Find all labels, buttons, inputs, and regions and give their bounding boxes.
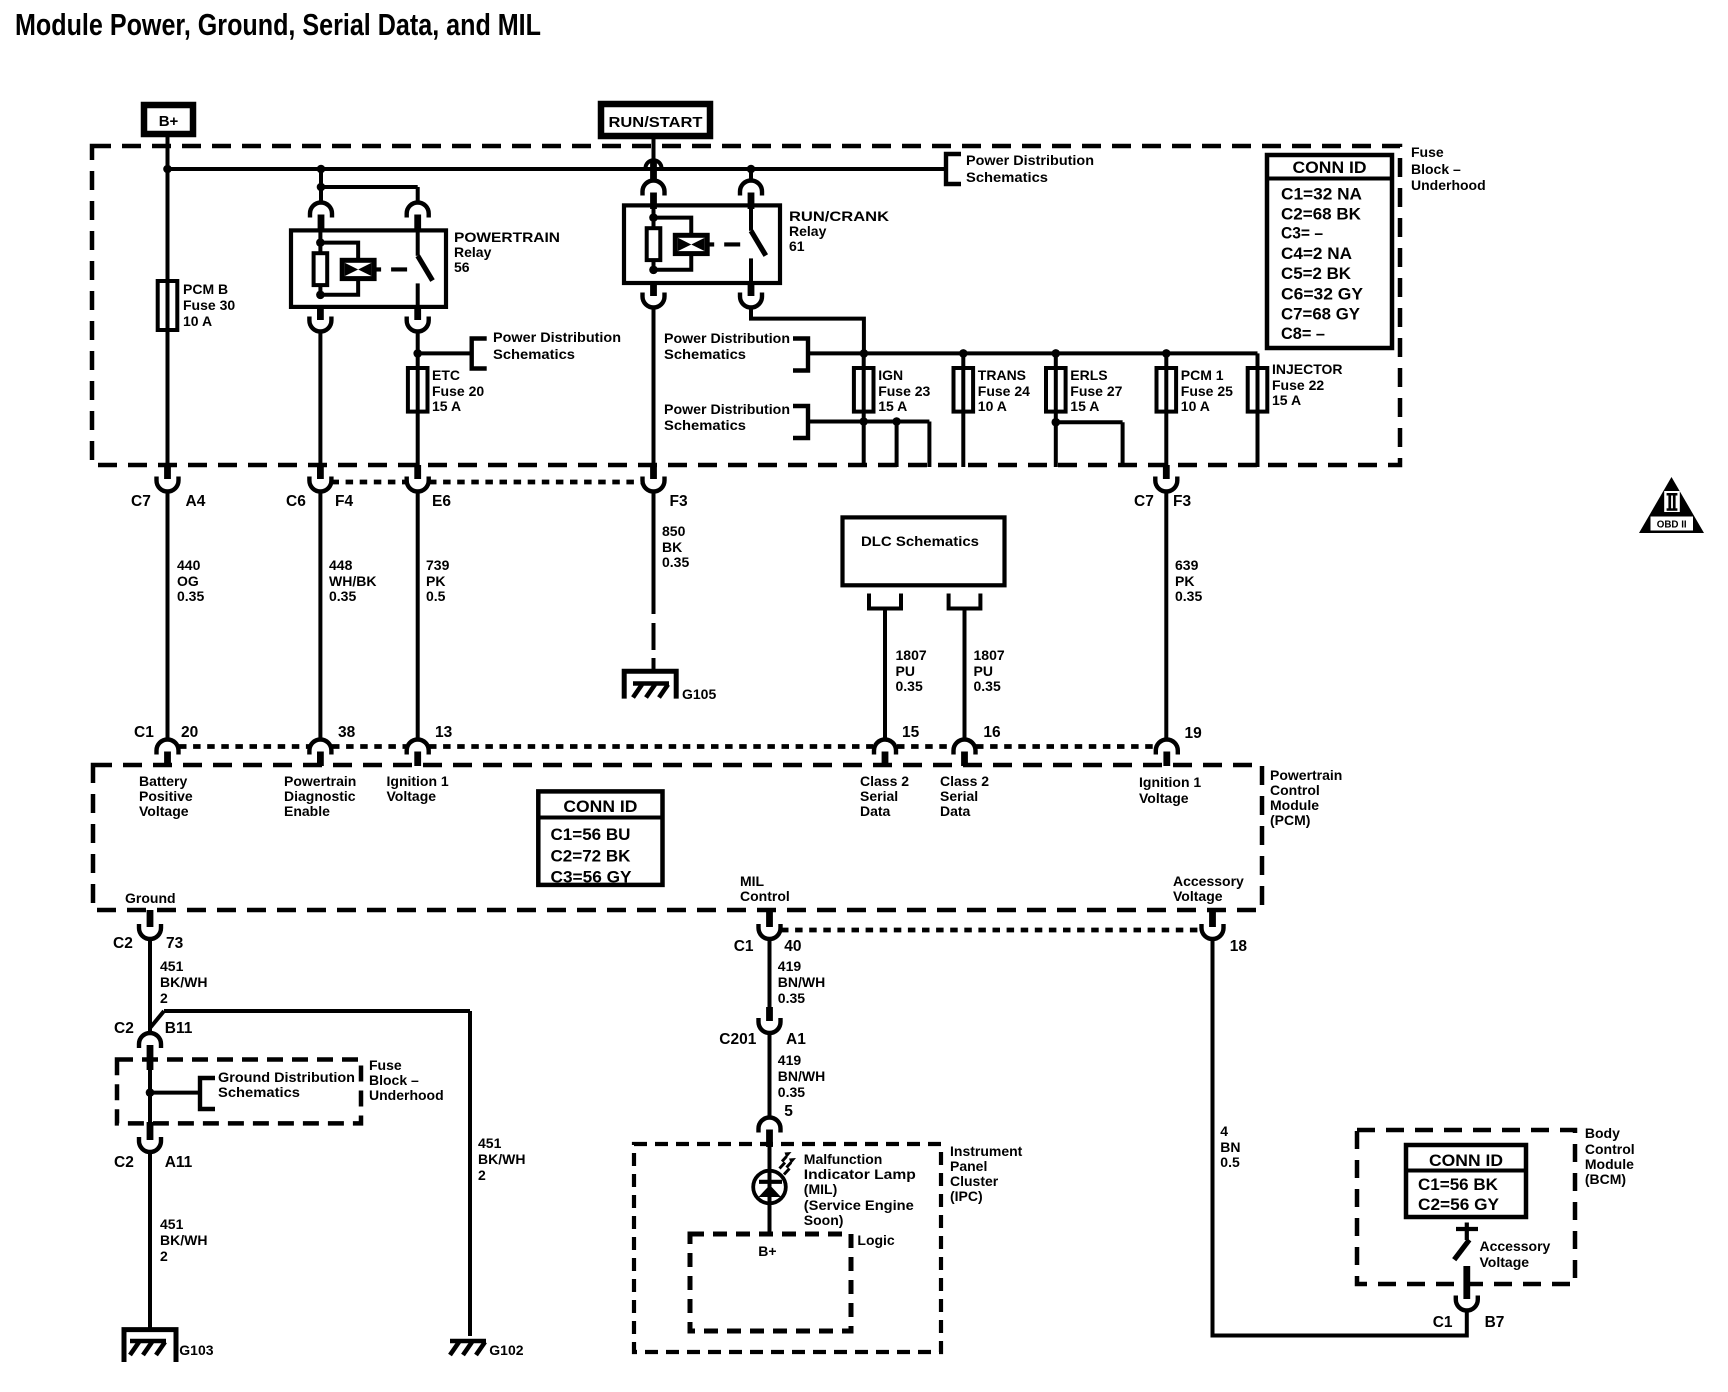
svg-text:PCM B: PCM B xyxy=(183,281,228,297)
svg-text:A1: A1 xyxy=(786,1031,806,1048)
svg-text:440: 440 xyxy=(177,557,201,573)
svg-text:Control: Control xyxy=(1585,1141,1635,1157)
svg-text:Diagnostic: Diagnostic xyxy=(284,788,356,804)
svg-text:Fuse: Fuse xyxy=(369,1057,402,1073)
svg-text:CONN ID: CONN ID xyxy=(563,797,637,816)
svg-text:OG: OG xyxy=(177,573,199,589)
svg-text:Fuse: Fuse xyxy=(1411,144,1444,160)
svg-text:C2=68 BK: C2=68 BK xyxy=(1281,204,1362,223)
svg-text:BN/WH: BN/WH xyxy=(778,1068,825,1084)
svg-text:Ignition 1: Ignition 1 xyxy=(1139,774,1201,790)
svg-text:C1: C1 xyxy=(134,724,154,741)
svg-text:Instrument: Instrument xyxy=(950,1143,1023,1159)
svg-text:Voltage: Voltage xyxy=(387,788,437,804)
svg-text:18: 18 xyxy=(1230,938,1248,955)
svg-text:Data: Data xyxy=(940,803,971,819)
svg-text:CONN ID: CONN ID xyxy=(1293,158,1367,177)
svg-text:Cluster: Cluster xyxy=(950,1173,999,1189)
svg-text:PK: PK xyxy=(426,573,445,589)
svg-text:E6: E6 xyxy=(432,493,451,510)
svg-text:RUN/START: RUN/START xyxy=(609,114,703,131)
svg-text:C3= –: C3= – xyxy=(1281,223,1323,242)
svg-text:40: 40 xyxy=(784,938,801,955)
svg-text:C2: C2 xyxy=(113,935,133,952)
svg-text:0.5: 0.5 xyxy=(1220,1154,1240,1170)
svg-text:0.35: 0.35 xyxy=(778,990,805,1006)
svg-text:0.35: 0.35 xyxy=(778,1084,805,1100)
svg-text:Module: Module xyxy=(1585,1156,1634,1172)
svg-text:C1: C1 xyxy=(734,938,754,955)
svg-text:PK: PK xyxy=(1175,573,1194,589)
svg-text:RUN/CRANK: RUN/CRANK xyxy=(789,208,889,224)
svg-text:0.35: 0.35 xyxy=(329,588,356,604)
svg-text:73: 73 xyxy=(166,935,184,952)
svg-text:Malfunction: Malfunction xyxy=(804,1151,883,1167)
svg-text:0.35: 0.35 xyxy=(662,554,689,570)
svg-text:Control: Control xyxy=(1270,782,1320,798)
svg-text:MIL: MIL xyxy=(740,873,765,889)
svg-text:F3: F3 xyxy=(670,493,688,510)
svg-text:Underhood: Underhood xyxy=(1411,177,1486,193)
svg-text:BK/WH: BK/WH xyxy=(160,974,207,990)
svg-text:0.5: 0.5 xyxy=(426,588,446,604)
svg-text:850: 850 xyxy=(662,523,686,539)
svg-text:Relay: Relay xyxy=(789,223,827,239)
svg-text:G103: G103 xyxy=(179,1342,213,1358)
svg-text:A4: A4 xyxy=(186,493,206,510)
svg-text:A11: A11 xyxy=(165,1154,193,1171)
svg-text:PU: PU xyxy=(896,663,915,679)
svg-text:15 A: 15 A xyxy=(878,398,907,414)
svg-text:Voltage: Voltage xyxy=(1173,888,1223,904)
svg-text:B+: B+ xyxy=(758,1243,776,1259)
svg-text:(MIL): (MIL) xyxy=(804,1181,837,1197)
svg-text:C7=68 GY: C7=68 GY xyxy=(1281,304,1361,323)
svg-text:G102: G102 xyxy=(489,1342,523,1358)
svg-text:DLC Schematics: DLC Schematics xyxy=(861,533,979,549)
svg-text:2: 2 xyxy=(478,1167,486,1183)
svg-text:Voltage: Voltage xyxy=(1139,790,1189,806)
svg-text:Power Distribution: Power Distribution xyxy=(664,330,790,346)
svg-text:Fuse 25: Fuse 25 xyxy=(1181,383,1233,399)
svg-text:10 A: 10 A xyxy=(1181,398,1210,414)
svg-text:Fuse 24: Fuse 24 xyxy=(978,383,1030,399)
svg-text:B7: B7 xyxy=(1485,1314,1505,1331)
svg-text:(BCM): (BCM) xyxy=(1585,1171,1626,1187)
svg-text:C7: C7 xyxy=(1134,493,1154,510)
svg-text:C1=56 BK: C1=56 BK xyxy=(1418,1175,1499,1194)
svg-text:POWERTRAIN: POWERTRAIN xyxy=(454,229,560,245)
svg-text:IGN: IGN xyxy=(878,367,903,383)
svg-text:Logic: Logic xyxy=(857,1232,895,1248)
svg-text:Fuse 30: Fuse 30 xyxy=(183,297,235,313)
svg-text:4: 4 xyxy=(1220,1123,1228,1139)
svg-text:Panel: Panel xyxy=(950,1158,987,1174)
svg-text:Power Distribution: Power Distribution xyxy=(493,329,621,345)
svg-text:Schematics: Schematics xyxy=(218,1084,300,1100)
svg-text:C2=56 GY: C2=56 GY xyxy=(1418,1195,1500,1214)
svg-text:Power Distribution: Power Distribution xyxy=(664,401,790,417)
svg-text:739: 739 xyxy=(426,557,450,573)
svg-text:F3: F3 xyxy=(1173,493,1191,510)
svg-text:Block –: Block – xyxy=(1411,161,1461,177)
svg-text:Relay: Relay xyxy=(454,244,492,260)
svg-text:61: 61 xyxy=(789,238,805,254)
svg-text:Schematics: Schematics xyxy=(493,346,575,362)
svg-text:10 A: 10 A xyxy=(183,313,212,329)
svg-text:Fuse 20: Fuse 20 xyxy=(432,383,484,399)
svg-text:15: 15 xyxy=(902,724,920,741)
svg-text:Underhood: Underhood xyxy=(369,1087,444,1103)
svg-text:Module: Module xyxy=(1270,797,1319,813)
svg-text:C1=56 BU: C1=56 BU xyxy=(551,825,631,844)
svg-text:19: 19 xyxy=(1185,725,1203,742)
svg-text:2: 2 xyxy=(160,1248,168,1264)
svg-text:C7: C7 xyxy=(131,493,151,510)
svg-text:Schematics: Schematics xyxy=(664,346,746,362)
svg-text:Data: Data xyxy=(860,803,891,819)
svg-text:Module Power, Ground, Serial D: Module Power, Ground, Serial Data, and M… xyxy=(15,7,541,42)
svg-text:16: 16 xyxy=(983,724,1001,741)
svg-text:B11: B11 xyxy=(165,1020,193,1037)
svg-text:C3=56 GY: C3=56 GY xyxy=(551,868,633,887)
svg-text:Schematics: Schematics xyxy=(966,169,1048,185)
svg-text:451: 451 xyxy=(160,1216,184,1232)
svg-text:Positive: Positive xyxy=(139,788,193,804)
svg-text:20: 20 xyxy=(181,724,198,741)
svg-text:TRANS: TRANS xyxy=(978,367,1026,383)
svg-text:PU: PU xyxy=(974,663,993,679)
svg-text:Power Distribution: Power Distribution xyxy=(966,152,1094,168)
svg-text:15 A: 15 A xyxy=(432,398,461,414)
svg-text:Schematics: Schematics xyxy=(664,417,746,433)
svg-text:C201: C201 xyxy=(719,1031,756,1048)
svg-text:Voltage: Voltage xyxy=(139,803,189,819)
svg-text:Voltage: Voltage xyxy=(1480,1254,1530,1270)
svg-text:Ground: Ground xyxy=(125,890,176,906)
svg-text:F4: F4 xyxy=(335,493,353,510)
svg-text:Accessory: Accessory xyxy=(1173,873,1244,889)
svg-text:1807: 1807 xyxy=(896,647,927,663)
svg-text:419: 419 xyxy=(778,958,802,974)
svg-text:BK/WH: BK/WH xyxy=(160,1232,207,1248)
svg-text:451: 451 xyxy=(160,958,184,974)
svg-text:Ignition 1: Ignition 1 xyxy=(387,773,449,789)
svg-text:C2: C2 xyxy=(114,1020,134,1037)
svg-text:Control: Control xyxy=(740,888,790,904)
svg-text:CONN ID: CONN ID xyxy=(1429,1151,1503,1170)
svg-text:Accessory: Accessory xyxy=(1480,1238,1551,1254)
svg-text:Enable: Enable xyxy=(284,803,330,819)
svg-text:(IPC): (IPC) xyxy=(950,1188,983,1204)
svg-text:Ground Distribution: Ground Distribution xyxy=(218,1069,355,1085)
svg-text:38: 38 xyxy=(338,724,356,741)
svg-text:0.35: 0.35 xyxy=(974,678,1001,694)
svg-text:2: 2 xyxy=(160,990,168,1006)
svg-text:B+: B+ xyxy=(159,113,179,130)
svg-text:639: 639 xyxy=(1175,557,1199,573)
svg-text:15 A: 15 A xyxy=(1272,392,1301,408)
svg-text:5: 5 xyxy=(784,1103,793,1120)
svg-text:419: 419 xyxy=(778,1052,802,1068)
svg-text:Soon): Soon) xyxy=(804,1212,844,1228)
svg-text:10 A: 10 A xyxy=(978,398,1007,414)
svg-text:C4=2 NA: C4=2 NA xyxy=(1281,244,1352,263)
svg-text:C8= –: C8= – xyxy=(1281,324,1325,343)
svg-text:Block –: Block – xyxy=(369,1072,419,1088)
svg-text:1807: 1807 xyxy=(974,647,1005,663)
svg-text:INJECTOR: INJECTOR xyxy=(1272,361,1343,377)
svg-text:15 A: 15 A xyxy=(1070,398,1099,414)
svg-text:PCM 1: PCM 1 xyxy=(1181,367,1224,383)
svg-text:0.35: 0.35 xyxy=(177,588,204,604)
svg-text:(PCM): (PCM) xyxy=(1270,812,1310,828)
svg-text:Powertrain: Powertrain xyxy=(284,773,356,789)
svg-text:BK: BK xyxy=(662,539,682,555)
svg-text:WH/BK: WH/BK xyxy=(329,573,376,589)
svg-text:0.35: 0.35 xyxy=(1175,588,1202,604)
svg-text:Fuse 23: Fuse 23 xyxy=(878,383,930,399)
svg-text:BK/WH: BK/WH xyxy=(478,1151,525,1167)
svg-text:(Service Engine: (Service Engine xyxy=(804,1197,914,1213)
svg-text:Body: Body xyxy=(1585,1125,1620,1141)
svg-text:BN/WH: BN/WH xyxy=(778,974,825,990)
svg-text:C5=2 BK: C5=2 BK xyxy=(1281,264,1352,283)
svg-text:C2=72 BK: C2=72 BK xyxy=(551,847,632,866)
svg-text:56: 56 xyxy=(454,259,470,275)
svg-text:BN: BN xyxy=(1220,1139,1240,1155)
svg-text:C2: C2 xyxy=(114,1154,134,1171)
svg-text:G105: G105 xyxy=(682,686,716,702)
svg-text:Fuse 22: Fuse 22 xyxy=(1272,377,1324,393)
svg-text:0.35: 0.35 xyxy=(896,678,923,694)
svg-text:451: 451 xyxy=(478,1135,502,1151)
svg-text:Serial: Serial xyxy=(940,788,978,804)
svg-text:13: 13 xyxy=(435,724,453,741)
svg-text:C6: C6 xyxy=(286,493,306,510)
svg-text:ERLS: ERLS xyxy=(1070,367,1107,383)
svg-text:Class 2: Class 2 xyxy=(940,773,989,789)
svg-text:448: 448 xyxy=(329,557,353,573)
svg-text:Indicator Lamp: Indicator Lamp xyxy=(804,1166,916,1182)
svg-text:C6=32 GY: C6=32 GY xyxy=(1281,285,1364,304)
svg-text:Serial: Serial xyxy=(860,788,898,804)
svg-text:C1: C1 xyxy=(1433,1314,1453,1331)
svg-text:ETC: ETC xyxy=(432,367,460,383)
svg-text:Powertrain: Powertrain xyxy=(1270,767,1342,783)
svg-text:Class 2: Class 2 xyxy=(860,773,909,789)
svg-text:C1=32 NA: C1=32 NA xyxy=(1281,185,1362,204)
svg-text:Battery: Battery xyxy=(139,773,187,789)
svg-text:Fuse 27: Fuse 27 xyxy=(1070,383,1122,399)
svg-text:OBD II: OBD II xyxy=(1657,520,1687,531)
